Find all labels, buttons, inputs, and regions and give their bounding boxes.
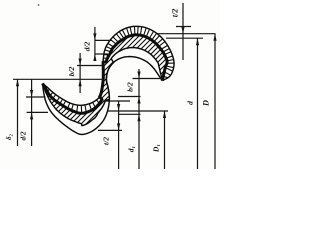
svg-text:d: d (186, 101, 195, 105)
dimension t/2 (bottom) (103, 100, 130, 102)
svg-text:b/2: b/2 (126, 82, 135, 92)
strip line K3 (43, 48, 163, 126)
dimension t/2 (top right) with extension lines (176, 26, 191, 28)
strip heavy line K2 (43, 35, 168, 114)
dimension D1 (164, 111, 166, 169)
svg-text:δ₂: δ₂ (5, 133, 13, 140)
svg-text:D: D (202, 100, 211, 107)
dimension D (right side) (214, 34, 216, 169)
svg-text:t/2: t/2 (171, 9, 180, 17)
section hatch of strip (0, 0, 320, 150)
dimension d (right side) (197, 38, 199, 169)
svg-text:d₁: d₁ (127, 146, 136, 152)
scan speck (38, 4, 40, 6)
svg-text:D₁: D₁ (152, 144, 161, 153)
dimension delta2 and d/2 (left bottom) (26, 96, 46, 98)
dimension d/2 (top middle) (95, 39, 112, 41)
svg-text:d/2: d/2 (83, 41, 92, 51)
svg-text:b/2: b/2 (67, 66, 76, 76)
radial hatch band (packing) (45, 26, 174, 113)
dimension b/2 (left) (77, 65, 104, 67)
strip face K1 (43, 26, 175, 105)
svg-text:t/2: t/2 (102, 137, 111, 145)
strip face K4 (43, 57, 163, 135)
dimension b/2 (right) and d1 (133, 78, 163, 80)
svg-text:d/2: d/2 (20, 131, 28, 140)
